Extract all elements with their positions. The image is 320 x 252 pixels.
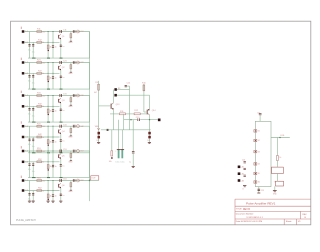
svg-text:C52: C52	[80, 151, 83, 153]
svg-text:10u: 10u	[32, 171, 35, 173]
channel 4: input port square J4b	[22, 136, 25, 139]
resistor R12	[134, 113, 140, 115]
svg-text:1n: 1n	[55, 166, 57, 168]
svg-text:A3: A3	[242, 179, 244, 182]
svg-text:VEE: VEE	[95, 126, 100, 128]
wire	[259, 115, 261, 122]
channel 2: wire vertical	[29, 63, 31, 90]
channel 2: wire row1	[24, 62, 89, 64]
ground	[132, 165, 135, 167]
channel 1: wire row2	[24, 41, 59, 43]
svg-text:10u: 10u	[32, 52, 35, 54]
svg-text:1k: 1k	[50, 196, 52, 198]
channel 4: junction	[48, 137, 49, 138]
channel 6: wire row2	[24, 190, 59, 192]
svg-text:Sheet:: Sheet:	[286, 220, 292, 223]
channel 2: net name text	[21, 58, 22, 60]
channel 5: wire row2	[24, 161, 59, 163]
channel 5: ground rail wire	[28, 177, 90, 179]
svg-text:C42: C42	[80, 126, 83, 128]
svg-text:C32: C32	[80, 95, 83, 97]
wire	[117, 89, 130, 91]
channel 2: capacitor C21 (series)	[59, 61, 61, 64]
channel 5: transistor Q5	[58, 154, 60, 158]
channel 3: input port square J3b	[22, 105, 25, 108]
svg-text:100u: 100u	[115, 162, 119, 164]
channel 3: electrolytic capacitor C34	[32, 107, 34, 109]
channel 5: junction	[48, 151, 49, 152]
wire (mid vertical)	[129, 86, 131, 130]
diode D2	[98, 136, 101, 139]
channel 3: junction	[53, 106, 54, 107]
channel 4: wire vertical	[47, 126, 49, 153]
svg-text:10u: 10u	[32, 83, 35, 85]
capacitor C21	[244, 167, 246, 169]
svg-text:10k: 10k	[109, 161, 112, 163]
svg-text:GND: GND	[68, 161, 73, 163]
channel 1: resistor R11	[37, 31, 42, 33]
channel 3: capacitor C36 (vertical)	[60, 108, 62, 110]
svg-text:1n: 1n	[62, 141, 64, 143]
svg-text:1k: 1k	[42, 162, 44, 164]
negative rail wire	[101, 129, 151, 131]
connector contact 2	[254, 139, 257, 141]
wire Q13 emitter	[112, 109, 114, 114]
svg-text:1n: 1n	[55, 141, 57, 143]
channel 3: input port square J3a	[22, 94, 25, 97]
channel 3: polarized capacitor C32	[72, 94, 74, 97]
channel 3: resistor R34 (vertical)	[47, 109, 49, 113]
channel 5: wire vertical	[60, 159, 62, 178]
channel 3: wire row2	[24, 105, 59, 107]
channel 1: ground rail wire	[28, 57, 90, 59]
channel 6: capacitor C61 (series)	[59, 179, 61, 182]
channel 1: electrolytic capacitor C14	[32, 43, 34, 45]
channel 1: wire vertical	[29, 32, 31, 59]
channel 5: input port square J5a	[22, 150, 25, 153]
port square BIAS1	[114, 88, 117, 91]
channel 6: junction	[48, 190, 49, 191]
channel 4: electrolytic capacitor C44	[32, 138, 34, 140]
connector contact 4	[254, 163, 257, 165]
channel 6: ground	[28, 200, 31, 202]
channel 6: junction	[53, 190, 54, 191]
svg-text:10u: 10u	[32, 116, 35, 118]
channel 6: ground	[51, 200, 54, 202]
svg-text:Pulse Amplifier REV1: Pulse Amplifier REV1	[246, 201, 276, 205]
wire Q13 base	[99, 105, 112, 107]
output port square OUT	[158, 119, 161, 122]
ground	[97, 142, 100, 144]
svg-text:1n: 1n	[62, 110, 64, 112]
channel 2: wire vertical	[32, 73, 34, 89]
channel 4: wire vertical (to bus)	[89, 126, 91, 153]
channel 1: junction	[48, 31, 49, 32]
svg-text:D1: D1	[97, 140, 99, 142]
resistor R11	[119, 113, 125, 115]
channel 4: resistor R41	[37, 125, 42, 127]
channel 2: electrolytic capacitor C24	[32, 74, 34, 76]
channel 6: electrolytic capacitor C63	[28, 192, 30, 194]
channel 6: wire vertical	[47, 181, 49, 202]
svg-text:PULSE_AMP.SCH: PULSE_AMP.SCH	[16, 219, 36, 222]
svg-text:10u: 10u	[28, 144, 31, 146]
connector contact 6	[254, 181, 257, 183]
connector contact 1	[254, 130, 257, 132]
channel 3: wire vertical (to bus)	[89, 96, 91, 123]
channel 3: transistor Q3	[58, 99, 60, 103]
ground	[273, 190, 277, 192]
channel 2: wire vertical	[60, 70, 62, 89]
svg-text:S3: S3	[258, 151, 260, 153]
svg-text:1k: 1k	[42, 73, 44, 75]
bus wire (summing node)	[89, 32, 91, 181]
channel 6: wire vertical	[32, 191, 34, 202]
svg-text:1k: 1k	[50, 166, 52, 168]
polarized capacitor C19 (below connector)	[258, 187, 260, 193]
wire to ground	[274, 186, 276, 190]
ground	[148, 142, 151, 144]
svg-text:GND: GND	[68, 106, 73, 108]
channel 6: wire row1	[24, 180, 89, 182]
svg-text:1k: 1k	[50, 141, 52, 143]
channel 1: junction	[53, 31, 54, 32]
svg-text:X.XXX REV1 0.1: X.XXX REV1 0.1	[246, 217, 263, 219]
transistor Q13	[110, 104, 112, 109]
channel 5: wire vertical	[52, 151, 54, 178]
channel 4: junction	[53, 137, 54, 138]
channel 1: junction	[53, 42, 54, 43]
channel 5: wire vertical	[47, 151, 49, 178]
channel 4: junction	[53, 126, 54, 127]
channel 6: ground	[47, 200, 50, 202]
svg-text:S1: S1	[258, 131, 260, 133]
channel 1: wire vertical	[32, 42, 34, 58]
channel 2: transistor Q2	[58, 66, 60, 70]
connector contact 5	[254, 172, 257, 174]
channel 2: capacitor C26 (vertical)	[60, 75, 62, 77]
svg-text:1n: 1n	[62, 195, 64, 197]
svg-text:S2: S2	[258, 140, 260, 142]
svg-text:GND: GND	[68, 73, 73, 75]
channel 4: wire vertical	[32, 137, 34, 153]
channel 6: wire vertical	[52, 181, 54, 202]
wire Q13 collector	[112, 90, 114, 103]
svg-text:C22: C22	[80, 62, 83, 64]
channel 6: resistor R64 (vertical)	[47, 194, 49, 198]
channel 1: wire vertical	[60, 39, 62, 58]
channel 6: wire vertical	[29, 181, 31, 202]
bus junction and connector flag CON1	[89, 180, 90, 181]
ground	[243, 185, 246, 187]
svg-text:S4: S4	[258, 164, 260, 166]
wire	[117, 94, 150, 96]
channel 5: electrolytic capacitor C54	[32, 163, 34, 165]
wire coil output	[271, 137, 290, 139]
svg-text:1n: 1n	[55, 78, 57, 80]
channel 3: wire vertical	[52, 96, 54, 123]
svg-text:1n: 1n	[55, 196, 57, 198]
channel 1: wire vertical	[47, 32, 49, 59]
svg-text:C12: C12	[80, 31, 83, 33]
svg-text:C19: C19	[261, 190, 264, 192]
channel 3: net name text	[21, 91, 22, 93]
svg-text:2k2: 2k2	[42, 126, 45, 128]
channel 4: ground rail wire	[28, 152, 90, 154]
channel 1: input port square J1b	[22, 41, 25, 44]
channel 5: resistor R51	[37, 150, 42, 152]
diode module D5 (box)	[272, 167, 284, 173]
channel 2: resistor R21	[37, 62, 42, 64]
svg-text:GND: GND	[68, 42, 73, 44]
wire emitter bus	[110, 113, 119, 115]
wire Q14 collector	[149, 95, 151, 109]
channel 2: wire row2	[24, 72, 59, 74]
schematic frame border	[11, 21, 311, 225]
connector contact 3	[254, 150, 257, 152]
svg-text:REV B: REV B	[243, 209, 250, 211]
channel 5: capacitor C55 (vertical)	[52, 164, 54, 166]
svg-text:S6: S6	[258, 182, 260, 184]
channel 2: junction	[53, 62, 54, 63]
diode D4	[148, 136, 151, 139]
svg-text:1k: 1k	[279, 157, 281, 159]
channel 3: wire row1	[24, 95, 89, 97]
wire Q14 emitter	[149, 115, 151, 120]
channel 1: junction	[48, 42, 49, 43]
channel 6: capacitor C66 (vertical)	[60, 193, 62, 195]
channel 4: wire vertical	[60, 134, 62, 153]
svg-text:A2: A2	[242, 173, 244, 176]
channel 6: resistor R61	[37, 180, 42, 182]
channel 4: junction	[48, 126, 49, 127]
channel 2: input port square J2a	[22, 61, 25, 64]
svg-text:10u: 10u	[28, 169, 31, 171]
resistor R13 (vertical)	[111, 130, 113, 151]
channel 1: polarized capacitor C12	[72, 30, 74, 33]
channel 5: wire vertical	[32, 162, 34, 178]
channel 6: wire vertical	[60, 188, 62, 201]
channel 5: junction	[53, 151, 54, 152]
svg-text:10u: 10u	[32, 146, 35, 148]
svg-text:C62: C62	[80, 180, 83, 182]
channel 1: transistor Q1	[58, 35, 60, 39]
channel 6: input port square J6a	[22, 179, 25, 182]
channel 3: ground rail wire	[28, 121, 90, 123]
channel 4: wire row2	[24, 136, 59, 138]
channel 6: net name text	[21, 176, 22, 178]
channel 3: capacitor C31 (series)	[59, 94, 61, 97]
channel 5: resistor R52	[37, 161, 42, 163]
channel 4: electrolytic capacitor C43	[28, 138, 30, 140]
channel 1: capacitor C15 (vertical)	[52, 45, 54, 47]
wire Q14 base	[143, 106, 145, 112]
channel 2: resistor R23 (vertical, to gnd)	[70, 63, 72, 73]
svg-text:1n: 1n	[62, 77, 64, 79]
channel 4: capacitor C46 (vertical)	[60, 139, 62, 141]
channel 5: junction	[48, 161, 49, 162]
channel 3: wire vertical	[32, 106, 34, 122]
channel 2: ground rail wire	[28, 88, 90, 90]
port square BIAS2	[114, 94, 117, 97]
channel 4: resistor R43 (vertical, to gnd)	[70, 126, 72, 136]
channel 1: wire row1	[24, 31, 89, 33]
channel 5: junction	[53, 161, 54, 162]
svg-text:2k2: 2k2	[42, 95, 45, 97]
channel 3: junction	[48, 95, 49, 96]
diode D1	[98, 130, 100, 143]
channel 2: wire vertical	[47, 63, 49, 90]
channel 4: transistor Q4	[58, 130, 60, 134]
channel 6: resistor R62	[37, 190, 42, 192]
channel 5: input port square J5b	[22, 161, 25, 164]
svg-text:GND: GND	[68, 191, 73, 193]
svg-text:1k: 1k	[42, 190, 44, 192]
channel 5: polarized capacitor C52	[72, 150, 74, 153]
wire output row	[112, 114, 114, 130]
svg-text:S5: S5	[258, 173, 260, 175]
channel 3: capacitor C35 (vertical)	[52, 109, 54, 111]
wire verticals to negative rail	[118, 120, 120, 130]
electrolytic capacitor C16	[118, 130, 120, 150]
channel 6: resistor R63 (vertical, to gnd)	[70, 181, 72, 191]
junction	[130, 119, 131, 120]
channel 5: resistor R53 (vertical, to gnd)	[70, 151, 72, 161]
channel 4: wire row1	[24, 125, 89, 127]
svg-text:A1: A1	[242, 166, 244, 169]
channel 2: input port square J2b	[22, 72, 25, 75]
channel 4: capacitor C45 (vertical)	[52, 140, 54, 142]
channel 3: wire vertical	[47, 96, 49, 123]
channel 4: capacitor C41 (series)	[59, 125, 61, 128]
channel 1: net name text	[21, 27, 22, 29]
channel 4: wire vertical	[29, 126, 31, 153]
svg-text:+: +	[115, 151, 116, 153]
svg-text:4k7: 4k7	[94, 92, 97, 94]
svg-text:1k: 1k	[42, 106, 44, 108]
channel 1: electrolytic capacitor C13	[28, 43, 30, 45]
channel 1: input port square J1a	[22, 30, 25, 33]
channel 2: electrolytic capacitor C23	[28, 74, 30, 76]
channel 2: junction	[48, 73, 49, 74]
junction (rail)	[107, 129, 109, 131]
junction	[279, 137, 280, 138]
channel 6: electrolytic capacitor C64	[32, 192, 34, 194]
svg-text:1n: 1n	[62, 165, 64, 167]
channel 1: wire vertical	[52, 32, 54, 59]
channel 1: resistor R13 (vertical, to gnd)	[70, 32, 72, 42]
channel 3: resistor R32	[37, 105, 42, 107]
channel 5: wire vertical (to bus)	[89, 151, 91, 178]
svg-text:1k: 1k	[42, 42, 44, 44]
channel 6: wire vertical (to bus)	[89, 181, 91, 202]
channel 6: polarized capacitor C62	[72, 179, 74, 182]
channel 2: junction	[53, 73, 54, 74]
channel 3: wire vertical	[60, 103, 62, 122]
capacitor C15 (series, output)	[137, 118, 139, 121]
svg-text:10u: 10u	[28, 114, 31, 116]
channel 4: resistor R44 (vertical)	[47, 140, 49, 144]
channel 4: wire vertical	[52, 126, 54, 153]
channel 1: resistor R12	[37, 41, 42, 43]
channel 5: capacitor C56 (vertical)	[60, 164, 62, 166]
svg-text:100u: 100u	[120, 162, 124, 164]
channel 3: junction	[48, 106, 49, 107]
channel 6: input port square J6b	[22, 189, 25, 192]
channel 1: resistor R14 (vertical)	[47, 45, 49, 49]
svg-text:10u: 10u	[28, 50, 31, 52]
connector body X1	[255, 121, 271, 186]
channel 5: resistor R54 (vertical)	[47, 165, 49, 169]
capacitor C22	[244, 174, 246, 176]
channel 2: resistor R24 (vertical)	[47, 76, 49, 80]
diode D3	[149, 130, 151, 143]
channel 2: polarized capacitor C22	[72, 61, 74, 64]
channel 2: resistor R22	[37, 72, 42, 74]
channel 3: junction	[53, 95, 54, 96]
channel 4: input port square J4a	[22, 125, 25, 128]
channel 2: wire vertical	[52, 63, 54, 90]
svg-text:2k2: 2k2	[42, 62, 45, 64]
channel 1: capacitor C16 (vertical)	[60, 44, 62, 46]
port square P1	[238, 166, 241, 169]
channel 6: junction	[48, 180, 49, 181]
svg-text:2k2: 2k2	[42, 151, 45, 153]
channel 5: electrolytic capacitor C53	[28, 163, 30, 165]
junction	[149, 119, 150, 120]
channel 6: ground	[59, 200, 62, 202]
channel 6: ground	[32, 200, 35, 202]
svg-text:1k: 1k	[50, 111, 52, 113]
svg-text:2k2: 2k2	[42, 31, 45, 33]
title block outline	[235, 198, 311, 200]
channel 4: polarized capacitor C42	[72, 125, 74, 128]
svg-text:1n: 1n	[55, 111, 57, 113]
electrolytic capacitor C17	[121, 130, 123, 150]
channel 5: net name text	[21, 146, 22, 148]
channel 4: net name text	[21, 121, 22, 123]
channel 5: capacitor C51 (series)	[59, 150, 61, 153]
svg-text:1k: 1k	[50, 78, 52, 80]
channel 6: junction	[53, 180, 54, 181]
svg-text:GND: GND	[68, 137, 73, 139]
channel 3: wire vertical	[29, 96, 31, 123]
svg-text:Document Number:: Document Number:	[236, 213, 254, 216]
svg-text:10/18/2011 5:02:13 PM: 10/18/2011 5:02:13 PM	[241, 221, 263, 223]
channel 1: capacitor C11 (series)	[59, 30, 61, 33]
channel 5: wire vertical	[29, 151, 31, 178]
channel 2: wire vertical (to bus)	[89, 63, 91, 90]
svg-text:1u: 1u	[129, 162, 131, 164]
svg-text:REV:: REV:	[303, 214, 308, 216]
channel 2: junction	[48, 62, 49, 63]
channel 6: capacitor C65 (vertical)	[52, 194, 54, 196]
capacitor C18 (vertical)	[132, 130, 134, 152]
channel 6: transistor Q6	[58, 184, 60, 188]
svg-text:10u: 10u	[28, 81, 31, 83]
svg-text:1n: 1n	[55, 47, 57, 49]
channel 3: resistor R33 (vertical, to gnd)	[70, 96, 72, 106]
svg-text:1k: 1k	[50, 47, 52, 49]
port square P2	[238, 172, 241, 175]
channel 1: wire vertical (to bus)	[89, 32, 91, 59]
svg-text:1k: 1k	[42, 137, 44, 139]
svg-text:1n: 1n	[62, 46, 64, 48]
port square P3	[238, 179, 241, 182]
svg-text:10u: 10u	[28, 199, 31, 201]
svg-text:2k2: 2k2	[42, 180, 45, 182]
channel 4: resistor R42	[37, 136, 42, 138]
